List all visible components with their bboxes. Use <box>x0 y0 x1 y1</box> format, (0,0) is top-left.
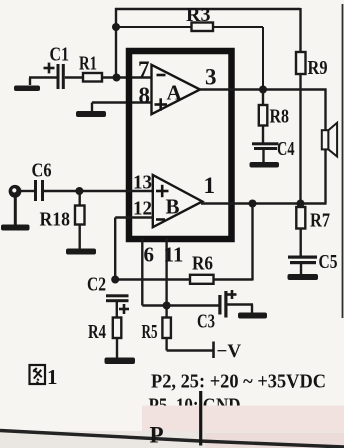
resistor R5 <box>162 318 171 339</box>
minus sign input B <box>156 218 165 221</box>
svg-text:R6: R6 <box>192 253 213 275</box>
wire: R3 feedback line y=27 <box>116 26 192 28</box>
wire: vertical drop x=263 from R3 line to output A line <box>262 27 264 90</box>
ground (R18) <box>78 225 80 250</box>
wire: speaker to output B line <box>324 149 326 203</box>
svg-text:C5: C5 <box>319 251 338 273</box>
wire: left feedback vertical x=116 <box>115 8 117 78</box>
plus sign of C2 <box>119 308 129 311</box>
wire: R3 to corner <box>213 26 263 28</box>
svg-text:−V: −V <box>217 341 242 362</box>
pink band artifact <box>142 406 344 432</box>
svg-text:12: 12 <box>133 198 152 220</box>
wire: pin 8 ground wire <box>92 101 152 103</box>
resistor R1 <box>83 73 102 82</box>
svg-text:C4: C4 <box>277 138 295 160</box>
node junction at (300.5,203.5) <box>297 200 305 208</box>
ground (C1 input) <box>29 78 31 85</box>
wire: R6 branch vertical from output B <box>251 204 253 281</box>
plus sign of C1 <box>44 67 55 70</box>
ground (C3) <box>238 313 267 319</box>
wire: pin 12 to C2 node <box>115 216 153 218</box>
svg-text:C3: C3 <box>197 311 215 333</box>
svg-text:C6: C6 <box>32 160 52 182</box>
ground (C5) <box>300 264 302 275</box>
resistor R8 <box>262 90 264 106</box>
pin 6 stub <box>141 238 143 306</box>
svg-text:R18: R18 <box>40 209 71 231</box>
svg-text:R4: R4 <box>88 321 106 343</box>
input connector J1 <box>9 185 22 198</box>
bottom strip <box>0 431 344 448</box>
wire: output B y=203.5 <box>201 202 327 204</box>
plus sign input B <box>156 190 169 193</box>
svg-text:6: 6 <box>144 243 155 267</box>
ground (R4) <box>116 338 118 358</box>
capacitor C5 <box>300 229 302 257</box>
capacitor C4 <box>262 126 264 143</box>
wire: R6 line y=279.5 <box>115 278 190 280</box>
svg-text:R5: R5 <box>142 321 158 343</box>
plus sign of C3 <box>228 293 237 296</box>
plus sign input A <box>155 103 168 106</box>
capacitor C1 (polarized) <box>57 64 60 89</box>
speaker LS <box>322 130 329 149</box>
node junction at (252.5,203.5) <box>249 200 257 208</box>
ground (input) <box>14 197 17 225</box>
svg-text:13: 13 <box>133 172 152 194</box>
wire: R5 to -V <box>165 338 167 351</box>
wire: R9 down to output B line <box>299 74 301 204</box>
capacitor C3 <box>218 295 221 315</box>
op-amp B <box>153 175 203 227</box>
IC box U1 <box>129 51 232 239</box>
wire: input to C1 <box>29 76 57 78</box>
resistor R6 <box>190 275 214 284</box>
minus sign input A <box>157 74 166 77</box>
bottom scan edge line <box>0 431 344 448</box>
svg-text:1: 1 <box>204 173 216 198</box>
wire: C2 to R4 <box>116 302 118 318</box>
resistor R7 <box>299 204 301 208</box>
svg-text:11: 11 <box>164 243 184 267</box>
svg-text:R7: R7 <box>310 210 330 232</box>
scan border right edge <box>342 4 344 318</box>
svg-text:P2, 25: +20 ~ +35VDC: P2, 25: +20 ~ +35VDC <box>151 371 326 393</box>
svg-text:R8: R8 <box>270 106 290 128</box>
svg-text:8: 8 <box>139 83 151 108</box>
svg-text:R3: R3 <box>186 4 210 26</box>
wire: speaker drop from output A <box>324 89 326 132</box>
next figure partial border <box>199 391 202 446</box>
node junction at (116.5,77.5) <box>113 74 121 82</box>
wire: output A y=89.5 <box>199 88 327 90</box>
caption 图1 <box>30 365 46 384</box>
terminal -V <box>212 342 215 359</box>
wire: C1 to R1 <box>65 76 83 78</box>
node junction at (263,89.5) <box>259 86 267 94</box>
svg-text:A: A <box>167 81 183 105</box>
svg-text:B: B <box>166 195 180 219</box>
wire: input to C6 <box>21 190 34 192</box>
svg-text:7: 7 <box>138 57 150 82</box>
wire: C6 to pin 13 <box>44 190 153 192</box>
ground (pin 8) <box>91 103 93 112</box>
wire: R1 to pin 7 <box>102 76 152 78</box>
resistor R9 <box>299 8 301 52</box>
svg-text:1: 1 <box>47 365 58 389</box>
svg-text:R9: R9 <box>308 57 328 79</box>
capacitor C6 <box>34 180 37 201</box>
resistor R4 <box>113 318 122 339</box>
svg-text:C1: C1 <box>50 44 70 66</box>
svg-text:R1: R1 <box>79 53 97 75</box>
pin 11 stub <box>165 238 167 318</box>
node junction at (166.6,305.5) <box>163 302 171 310</box>
wire: top feedback line y=9 <box>115 8 301 10</box>
ground (C4) <box>262 150 264 163</box>
wire: pin6/C3 line y=305.5 <box>142 304 218 306</box>
wire: C3 to ground <box>228 303 254 305</box>
svg-text:P: P <box>150 423 164 448</box>
op-amp A <box>152 65 201 114</box>
svg-text:C2: C2 <box>87 274 106 296</box>
node junction at (79.4,191) <box>75 187 83 195</box>
resistor R18 <box>78 191 80 206</box>
svg-text:3: 3 <box>205 65 217 90</box>
resistor R3 <box>192 23 214 32</box>
node junction at (115.2,279.5) <box>111 276 119 284</box>
node junction at (116,27) <box>112 23 120 31</box>
